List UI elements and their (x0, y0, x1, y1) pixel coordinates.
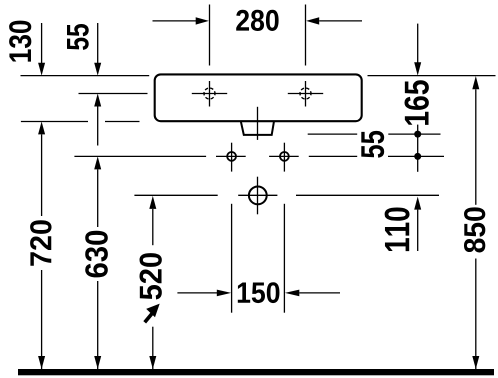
wire: 150 extension left (231, 204, 233, 313)
dimension 55 left lower arrow (94, 94, 101, 107)
wire: supply level line right of holes (309, 155, 357, 157)
fixing hole 1 cross horizontal (192, 93, 227, 95)
dimension 630 upper arrow (94, 156, 101, 169)
label 150 (238, 282, 280, 303)
wire: basin top level line right (368, 75, 496, 77)
wire: supply hole 2 cross horizontal (269, 155, 299, 157)
wire: drain cross vertical (257, 177, 259, 215)
dimension 720 line (41, 134, 43, 369)
wire: supply level line through dot 2 (388, 155, 444, 157)
wire: basin bottom level line left a (21, 121, 88, 123)
supply hole 2 (280, 152, 289, 161)
dimension 850 upper arrow (472, 76, 479, 89)
dot node upper (414, 131, 421, 138)
wire: drain cross horizontal (238, 194, 277, 196)
label 165 (405, 80, 429, 125)
dimension 520 floor arrow (149, 356, 156, 369)
wire: basin top level line left (21, 75, 150, 77)
wire: supply hole 1 cross horizontal (216, 155, 246, 157)
dimension 150 right arrow (299, 292, 340, 294)
dimension 165 upper arrow (417, 24, 419, 63)
dimension 280 left arrow (153, 20, 197, 22)
drain hole (249, 187, 267, 205)
wire: drain level line right (296, 194, 439, 196)
dimension 850 floor arrow (472, 356, 479, 369)
supply hole 1 (227, 152, 236, 161)
wire: supply hole 1 cross vertical (231, 143, 233, 172)
label 55 right (361, 131, 384, 158)
dimension 720 floor arrow (38, 356, 45, 369)
wire: 150 extension right (283, 204, 285, 313)
dot node lower (414, 153, 421, 160)
dimension 630 floor arrow (94, 356, 101, 369)
label 720 (30, 220, 51, 265)
dimension 55 left upper arrow (97, 23, 99, 64)
wire: supply level line long (74, 155, 206, 157)
dimension 130 upper arrow (41, 23, 43, 64)
fixing hole 2 cross horizontal (288, 93, 323, 95)
wire: 280 extension right (305, 5, 307, 66)
wire: fixing hole 2 cross vertical (305, 81, 307, 107)
wire: supply hole 2 cross vertical (283, 143, 285, 172)
dimension 520 upper arrow (149, 196, 156, 209)
wire: basin bottom level line left b (105, 121, 140, 123)
wire: drain level line left (134, 194, 217, 196)
label 130 (9, 21, 31, 62)
wire: fixing hole level line left (79, 93, 148, 95)
dimension 520 line (152, 209, 154, 369)
wire: upper 55 line right b through dot (388, 133, 440, 135)
wire: fixing hole 1 cross vertical (209, 81, 211, 107)
floor line (18, 369, 494, 375)
wire: upper 55 line right a (308, 133, 358, 135)
label 630 (85, 231, 108, 278)
label 110 (385, 208, 410, 252)
basin outline (155, 74, 362, 121)
fixing hole 1 (dashed) (204, 88, 215, 99)
label 520 (140, 253, 162, 299)
supply direction arrow (bent) (145, 304, 160, 323)
wire: 280 extension left (209, 5, 211, 66)
dimension 150 left arrow (177, 292, 217, 294)
label 850 (464, 207, 485, 252)
dimension 850 line (475, 89, 477, 369)
label 55 left (67, 24, 89, 50)
dimension 130 lower / 720 upper arrow (38, 122, 45, 135)
wire: dots vertical line (417, 125, 419, 172)
label 280 (236, 10, 278, 31)
fixing hole 2 (dashed) (300, 88, 311, 99)
dimension 280 right arrow (319, 20, 362, 22)
drain outlet trapezoid (241, 121, 274, 135)
dimension 110 arrow (414, 197, 421, 210)
dimension 630 line (97, 169, 99, 369)
wire: drain centre line through outlet (257, 107, 259, 140)
